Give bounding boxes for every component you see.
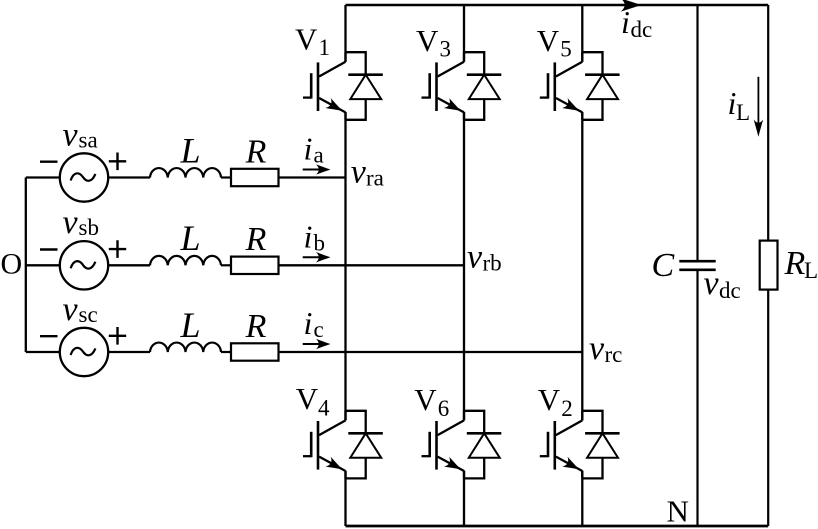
svg-text:2: 2	[561, 396, 573, 421]
svg-text:rb: rb	[483, 250, 502, 275]
svg-text:v: v	[63, 116, 79, 153]
svg-text:R: R	[245, 221, 267, 258]
svg-text:N: N	[667, 494, 689, 529]
svg-text:L: L	[180, 218, 201, 258]
svg-text:V: V	[537, 23, 560, 58]
svg-text:rc: rc	[605, 342, 623, 367]
svg-text:v: v	[63, 204, 79, 241]
svg-text:sc: sc	[79, 302, 98, 327]
svg-text:i: i	[304, 218, 313, 254]
svg-text:ra: ra	[366, 166, 384, 191]
svg-text:V: V	[295, 22, 318, 57]
svg-text:b: b	[314, 230, 326, 255]
svg-text:V: V	[296, 381, 319, 416]
svg-text:sa: sa	[79, 127, 98, 152]
svg-text:i: i	[621, 4, 630, 40]
svg-text:v: v	[63, 291, 79, 328]
svg-text:v: v	[351, 154, 367, 191]
svg-text:3: 3	[440, 37, 452, 62]
svg-text:R: R	[245, 133, 267, 170]
svg-text:V: V	[538, 382, 561, 417]
svg-text:L: L	[804, 258, 818, 283]
svg-text:v: v	[704, 265, 720, 302]
svg-text:i: i	[304, 131, 313, 167]
svg-text:c: c	[314, 317, 324, 342]
svg-text:i: i	[304, 305, 313, 341]
svg-text:dc: dc	[719, 278, 741, 303]
svg-text:1: 1	[319, 35, 331, 60]
svg-text:dc: dc	[631, 17, 653, 42]
svg-text:6: 6	[438, 396, 450, 421]
svg-text:V: V	[414, 382, 437, 417]
svg-text:v: v	[589, 330, 605, 367]
svg-text:R: R	[784, 245, 806, 282]
svg-text:L: L	[736, 100, 750, 125]
svg-text:V: V	[416, 23, 439, 58]
svg-text:5: 5	[560, 37, 572, 62]
svg-text:v: v	[467, 239, 483, 276]
svg-text:O: O	[1, 248, 23, 281]
svg-text:4: 4	[318, 395, 330, 420]
svg-text:R: R	[245, 308, 267, 345]
svg-text:L: L	[180, 130, 201, 170]
svg-text:a: a	[314, 143, 324, 168]
svg-text:L: L	[180, 305, 201, 345]
svg-text:sb: sb	[79, 215, 99, 240]
svg-text:C: C	[652, 247, 675, 284]
